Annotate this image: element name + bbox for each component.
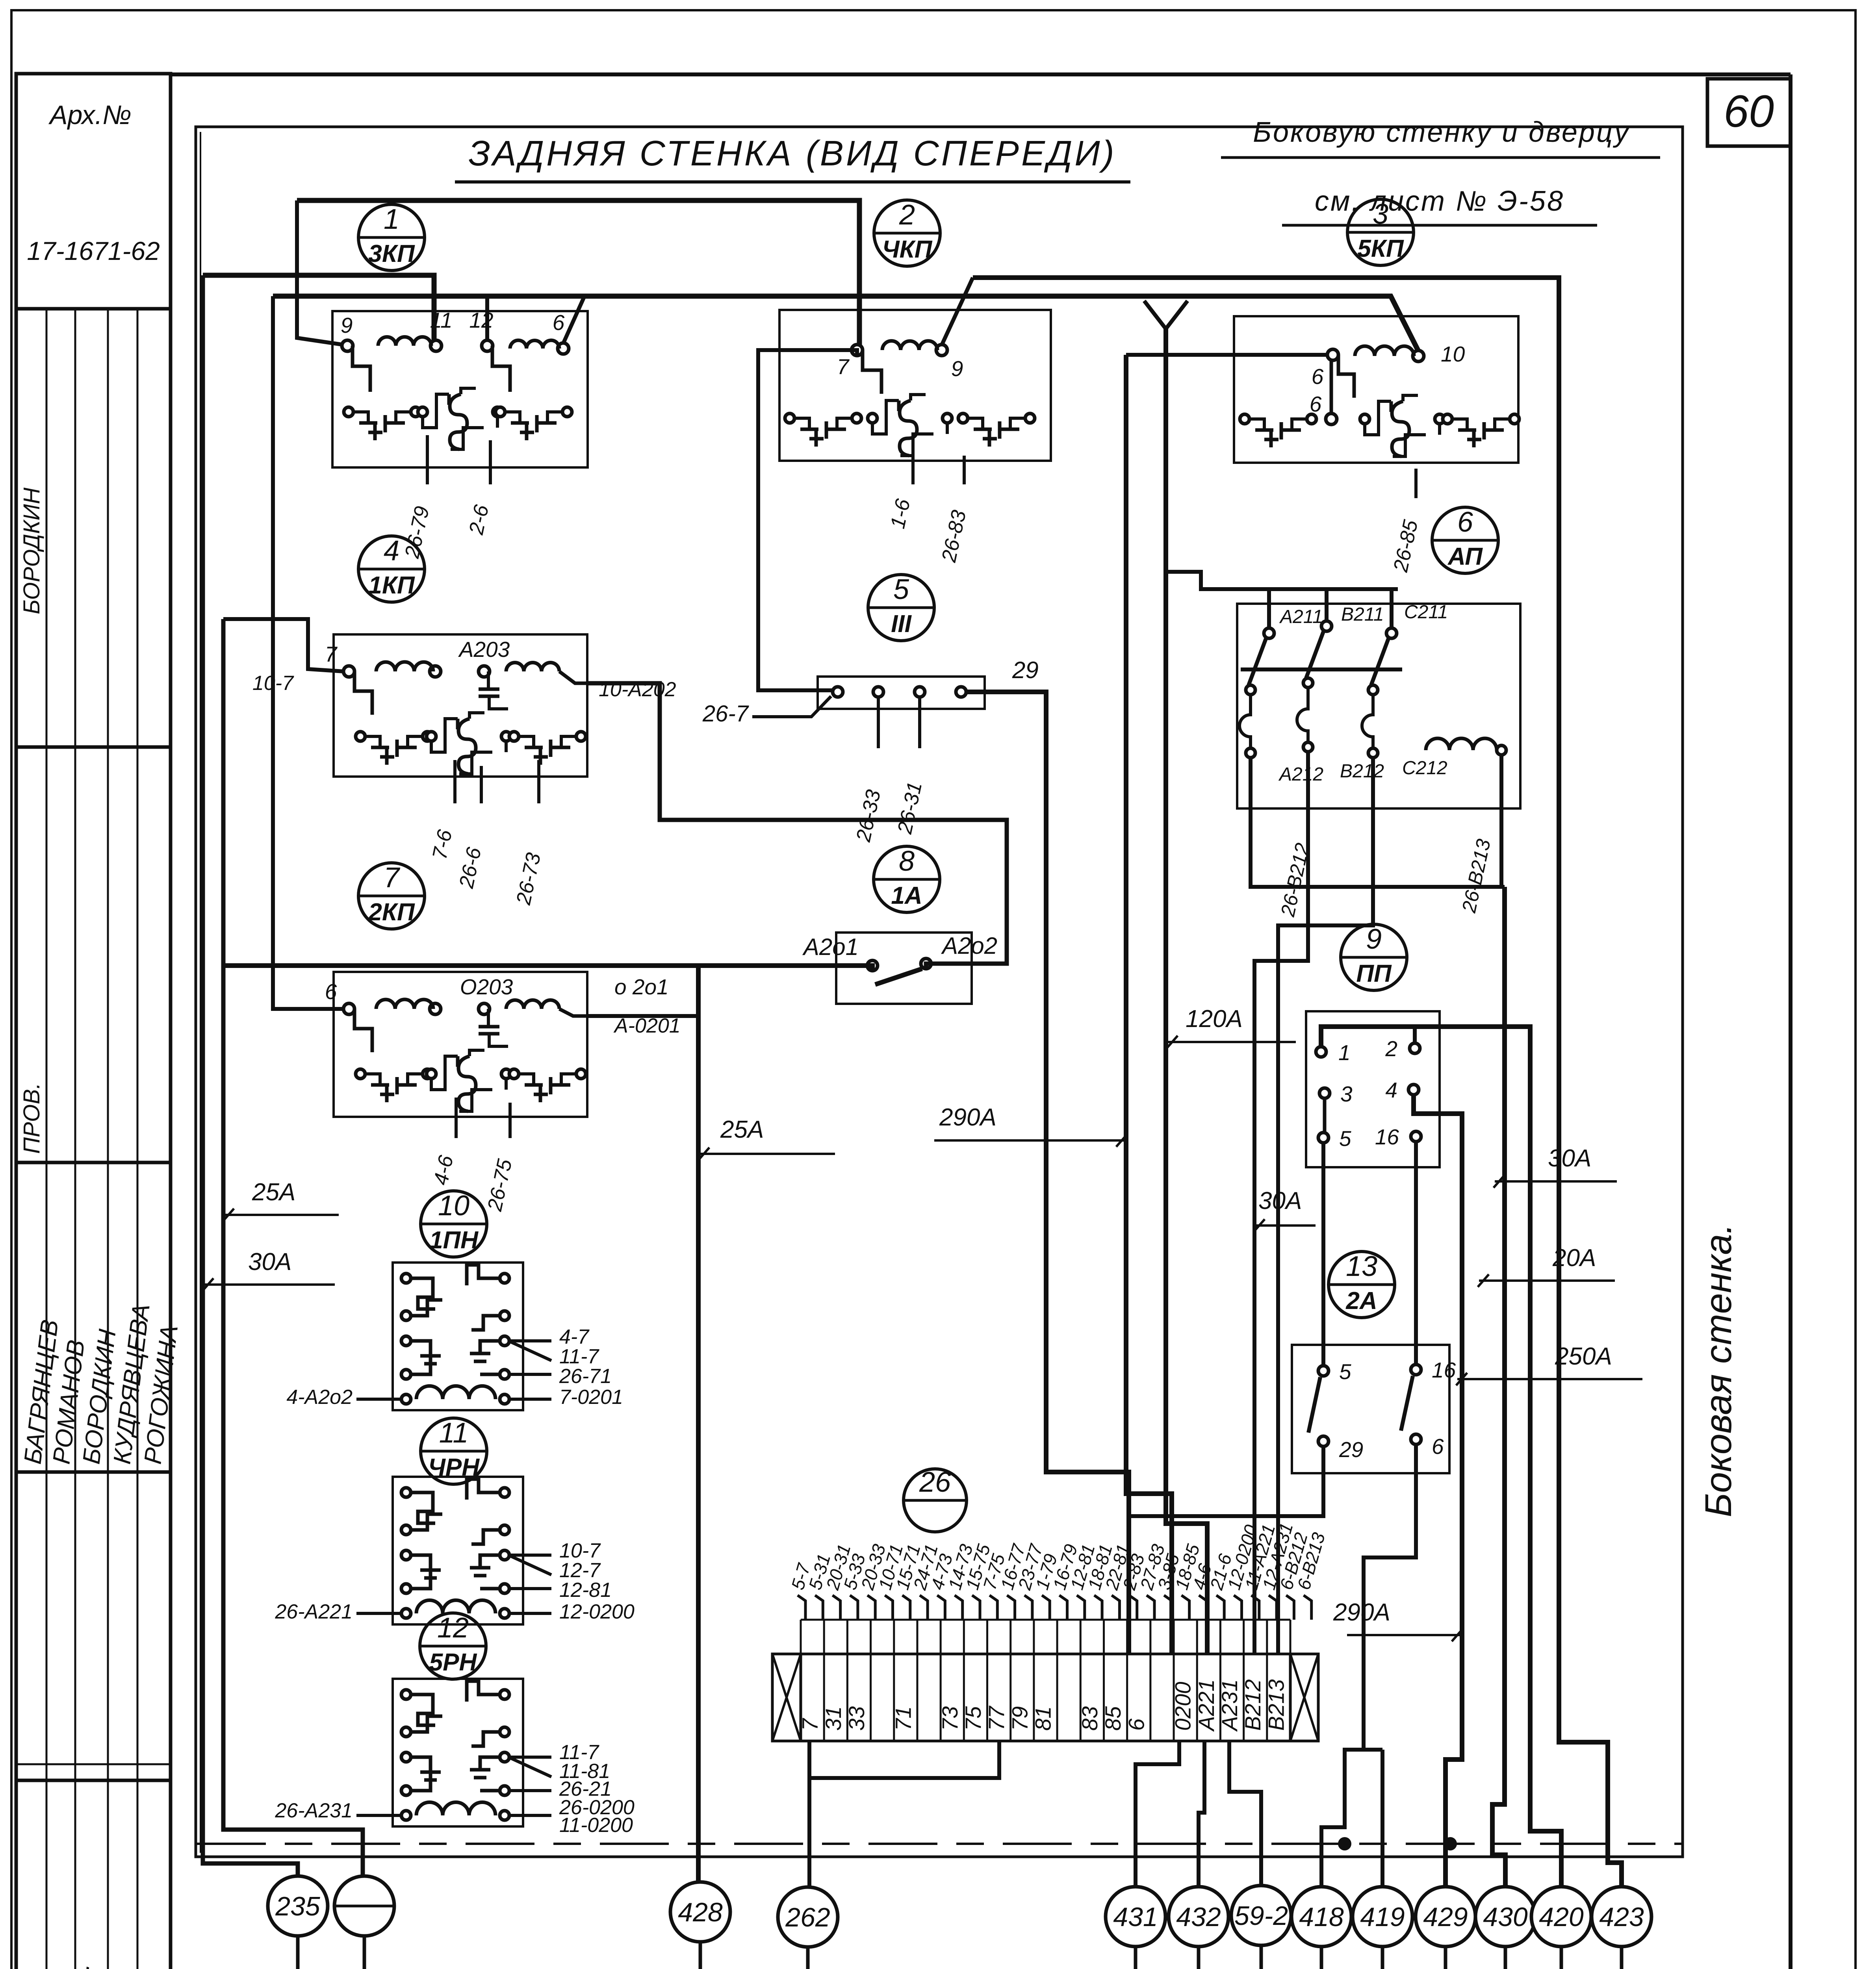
wire block8 A202 loop to relay4 exit <box>587 683 1007 969</box>
relay 4 coil left <box>376 662 433 671</box>
svg-text:1ПН: 1ПН <box>429 1227 479 1254</box>
wire bus 752 drop to relay7 pin6 <box>273 296 344 1009</box>
wire relay1 pin12 up <box>485 296 489 341</box>
svg-text:59-2: 59-2 <box>1234 1901 1288 1931</box>
svg-text:29: 29 <box>1339 1437 1363 1462</box>
circle 262 <box>778 1887 838 1947</box>
svg-text:9: 9 <box>341 313 353 337</box>
relay 3 contact group mid <box>1360 414 1369 424</box>
block 8 blade <box>875 969 922 984</box>
AP wire B212 down <box>1254 752 1308 1654</box>
svg-text:Арх.№: Арх.№ <box>48 100 131 130</box>
svg-text:см. лист № Э-58: см. лист № Э-58 <box>1315 185 1564 217</box>
relay 7 contact group left <box>356 1069 365 1079</box>
relay 7 bottom wire 26-75 <box>508 1103 512 1138</box>
svg-text:26-А231: 26-А231 <box>275 1799 353 1822</box>
svg-text:429: 429 <box>1423 1902 1468 1932</box>
svg-text:7: 7 <box>325 642 338 666</box>
svg-text:2А: 2А <box>1345 1287 1377 1315</box>
designator 10 1PN <box>421 1191 487 1257</box>
relay 1 3KP hooks <box>353 346 370 392</box>
wire bus top 509 <box>297 200 859 345</box>
svg-text:33: 33 <box>844 1706 869 1731</box>
svg-text:11: 11 <box>439 1417 469 1449</box>
AP wire C212 down <box>1278 758 1373 1654</box>
svg-text:75: 75 <box>961 1706 985 1731</box>
relay 2 coil <box>882 341 937 350</box>
AP coil output wire <box>1499 755 1503 887</box>
junction dot 429 dashed <box>1444 1837 1457 1850</box>
designator 7 2KP <box>358 863 425 929</box>
svg-text:85: 85 <box>1100 1706 1125 1731</box>
AP pole A <box>1267 590 1271 627</box>
circle 235 <box>268 1876 328 1936</box>
AP breaker box <box>1237 604 1520 808</box>
svg-text:2: 2 <box>899 199 915 231</box>
relay 1 3KP contact group right <box>495 407 505 417</box>
relay 4 contact group mid <box>427 732 436 741</box>
svg-text:290А: 290А <box>1333 1599 1390 1626</box>
relay 7 coil right <box>506 1000 559 1009</box>
svg-text:420: 420 <box>1539 1902 1584 1932</box>
relay 2 bottom wire 26-83 <box>963 456 966 484</box>
svg-text:АП: АП <box>1447 543 1483 570</box>
designator 2 4KP <box>874 200 940 266</box>
sidebar outer box <box>16 74 171 1969</box>
svg-text:В213: В213 <box>1264 1679 1288 1731</box>
relay 2 contact group mid <box>868 413 877 423</box>
svg-text:10: 10 <box>1441 342 1465 366</box>
relay 4 hook <box>354 671 372 715</box>
block 5 stub 26-33 <box>877 697 880 748</box>
svg-text:1КП: 1КП <box>368 572 415 599</box>
svg-text:3: 3 <box>1340 1082 1353 1106</box>
svg-text:262: 262 <box>785 1902 830 1932</box>
svg-text:25А: 25А <box>720 1116 764 1143</box>
svg-text:12-0200: 12-0200 <box>559 1600 635 1623</box>
svg-text:73: 73 <box>937 1706 962 1731</box>
relay 4 coil right <box>506 663 559 672</box>
svg-text:5РН: 5РН <box>429 1649 477 1676</box>
wire branch to relay7 exit A-0201 <box>587 1014 698 1018</box>
svg-text:В212: В212 <box>1340 761 1384 782</box>
junction dot 418 dashed <box>1338 1837 1351 1850</box>
block 8 terminal A201 <box>867 960 878 971</box>
svg-text:6: 6 <box>325 979 337 1004</box>
svg-text:235: 235 <box>275 1891 320 1921</box>
relay 7 contact group right <box>509 1069 519 1079</box>
wire feeder 567 to lamp circle <box>223 619 363 1875</box>
svg-text:С212: С212 <box>1402 758 1447 779</box>
drawing area right frame line <box>1789 74 1792 1969</box>
terminal strip 26 top stubs and wire labels <box>798 1595 805 1620</box>
svg-text:418: 418 <box>1299 1902 1344 1932</box>
wire bus 752 long <box>273 296 1418 351</box>
feeder drop wires <box>296 1936 300 1969</box>
relay 12 5RN box <box>393 1679 523 1826</box>
svg-text:30А: 30А <box>1548 1145 1591 1172</box>
svg-text:419: 419 <box>1360 1902 1405 1932</box>
svg-text:120А: 120А <box>1186 1005 1243 1033</box>
relay 3 contact group right <box>1443 414 1452 424</box>
svg-text:6: 6 <box>1124 1718 1149 1731</box>
circle 430 <box>1475 1887 1535 1947</box>
svg-text:11-0200: 11-0200 <box>559 1814 633 1837</box>
sheet number box 60 <box>1707 79 1791 146</box>
svg-text:ЧКП: ЧКП <box>882 236 933 263</box>
drawing area top frame line <box>171 72 1791 76</box>
svg-text:Боковая стенка.: Боковая стенка. <box>1698 1224 1739 1517</box>
svg-text:30А: 30А <box>1258 1187 1302 1214</box>
relay 1 bottom wire 26-79 <box>426 435 429 484</box>
wire block9 pin16 to block13 pin16 <box>1414 1142 1418 1365</box>
block 9 PP box <box>1306 1011 1440 1167</box>
svg-text:В212: В212 <box>1240 1679 1265 1731</box>
relay 3 vertical 6-6 link <box>1330 360 1333 413</box>
relay 2 contact group left <box>785 413 794 423</box>
relay 4 right exit <box>559 671 587 683</box>
relay 4 contact group left <box>356 732 365 741</box>
relay 1 bottom wire 2-6 <box>489 440 492 484</box>
svg-text:ЗАДНЯЯ СТЕНКА (ВИД СПЕРЕ: ЗАДНЯЯ СТЕНКА (ВИД СПЕРЕДИ) <box>468 134 1116 173</box>
relay 1 3KP contact group mid <box>418 407 427 417</box>
svg-text:290А: 290А <box>939 1104 996 1131</box>
svg-text:А212: А212 <box>1278 764 1323 785</box>
relay 4 contact group right <box>509 732 519 741</box>
terminal strip 26 end cross left <box>772 1654 801 1741</box>
svg-text:6: 6 <box>1310 392 1322 416</box>
block 5 III box <box>818 677 985 709</box>
terminal strip 26 upper row <box>800 1620 802 1654</box>
wire block9 pin4 to circle 429 <box>1414 1095 1462 1887</box>
wire bus 699 <box>203 275 434 341</box>
svg-text:432: 432 <box>1176 1902 1221 1932</box>
designator 12 5RN <box>420 1613 486 1679</box>
wire block9 pin2 stub <box>1413 1027 1417 1043</box>
relay 7 bottom wire 4-6 <box>455 1098 458 1138</box>
circle 420 <box>1531 1887 1591 1947</box>
designator 13 2A <box>1329 1251 1395 1318</box>
designator 5 III <box>868 575 934 641</box>
svg-text:2: 2 <box>1385 1036 1397 1061</box>
svg-text:9: 9 <box>1366 923 1382 955</box>
relay 1 3KP box <box>332 311 588 467</box>
wire strip cell A231 to circle 59-2 <box>1229 1741 1261 1886</box>
relay 11 4RN box <box>393 1477 523 1624</box>
wire strip cell 0200 to circle 431 <box>1136 1741 1179 1887</box>
svg-text:423: 423 <box>1599 1902 1644 1932</box>
svg-text:О203: О203 <box>460 975 513 999</box>
relay 10 coil exits <box>508 1398 551 1401</box>
wire block13 pin29 left link <box>1129 1447 1323 1516</box>
svg-text:0200: 0200 <box>1171 1682 1195 1731</box>
block 13 terminals <box>1318 1366 1329 1376</box>
AP pole B <box>1325 590 1329 620</box>
wire block9 bus 2607 <box>1321 1027 1561 1887</box>
svg-text:7: 7 <box>384 862 401 894</box>
svg-text:1А: 1А <box>891 882 922 909</box>
svg-text:3КП: 3КП <box>368 240 415 267</box>
relay 3 bottom wire 26-85 <box>1414 469 1418 498</box>
wire AP bottom bus to circle 430 <box>1492 887 1505 1887</box>
svg-text:4: 4 <box>384 535 399 567</box>
svg-text:4-А2о2: 4-А2о2 <box>286 1386 353 1409</box>
svg-text:81: 81 <box>1031 1706 1056 1731</box>
svg-text:6: 6 <box>1432 1434 1444 1459</box>
circle 432 <box>1169 1887 1228 1947</box>
designator 26 <box>904 1469 967 1532</box>
block 8 terminal A202 <box>921 959 931 969</box>
block 9 terminals <box>1316 1047 1326 1057</box>
svg-text:10: 10 <box>438 1190 469 1222</box>
circle 418 <box>1291 1887 1351 1947</box>
wire bus 705 upper right <box>973 278 1622 1887</box>
svg-text:5: 5 <box>893 574 909 605</box>
designator 4 1KP <box>358 536 425 602</box>
svg-text:А211: А211 <box>1279 606 1323 627</box>
relay 1 3KP contact group left <box>344 407 353 417</box>
wire relay2 pin9 diagonal up <box>942 278 973 345</box>
wire Y riser from bus to 120A feeder <box>1144 301 1188 329</box>
relay 11 switch exit <box>508 1554 551 1557</box>
svg-text:III: III <box>891 610 912 638</box>
wire relay1 pin6 diagonal up <box>563 296 585 343</box>
svg-text:4: 4 <box>1385 1078 1397 1102</box>
circle 419 <box>1353 1887 1412 1947</box>
svg-text:8: 8 <box>899 845 915 877</box>
svg-text:26-7: 26-7 <box>702 701 750 727</box>
schematic frame inner left line <box>200 132 201 1853</box>
block 8 1A box <box>836 933 972 1004</box>
wire relay2 pin7 to block5 <box>758 350 857 690</box>
svg-text:7: 7 <box>837 354 850 379</box>
wire bus 509 left drop to relay1 pin9 <box>297 200 342 345</box>
svg-text:6: 6 <box>1457 506 1473 538</box>
svg-text:431: 431 <box>1113 1902 1158 1932</box>
svg-text:30А: 30А <box>248 1248 291 1276</box>
relay 7 hook <box>354 1009 372 1052</box>
svg-text:20А: 20А <box>1552 1244 1596 1272</box>
wire block5 pin4 to 29 riser <box>966 692 1129 1654</box>
wire left feeder to lamp circle 235 <box>203 275 298 1875</box>
AP pole C <box>1390 590 1394 627</box>
svg-text:1: 1 <box>384 204 399 235</box>
designator 9 PP <box>1341 924 1407 990</box>
relay 7 contact group mid <box>427 1069 436 1079</box>
svg-text:ПРОВ.: ПРОВ. <box>19 1083 45 1154</box>
relay 3 coil top <box>1355 346 1414 356</box>
svg-text:12: 12 <box>469 308 493 332</box>
svg-text:Боковую стенку и дверцу: Боковую стенку и дверцу <box>1253 117 1630 148</box>
block 13 2A box <box>1292 1345 1449 1473</box>
relay 2 hook <box>863 350 881 394</box>
svg-text:17-1671-62: 17-1671-62 <box>27 236 160 265</box>
AP cross links <box>1241 667 1402 671</box>
svg-text:79: 79 <box>1007 1706 1032 1731</box>
terminal strip 26 cells <box>800 1654 802 1741</box>
relay 3 5KP box <box>1234 316 1518 463</box>
wire strip cell 7 down to circle 262 <box>807 1741 811 1887</box>
relay 2 bottom wire 1-6 <box>911 456 915 484</box>
svg-text:А231: А231 <box>1217 1679 1242 1732</box>
relay 10 switch exit <box>508 1339 551 1342</box>
svg-text:7-0201: 7-0201 <box>559 1386 623 1409</box>
designator 8 1A <box>874 846 940 912</box>
terminal strip 26 end cross right <box>1290 1654 1318 1741</box>
sidebar divider lines <box>16 745 171 749</box>
svg-text:428: 428 <box>678 1897 723 1927</box>
AP coil <box>1426 738 1497 750</box>
relay 7 cap symbol <box>487 1009 490 1027</box>
relay 7 right exit <box>559 1009 587 1016</box>
svg-text:3: 3 <box>1373 198 1388 230</box>
terminal strip 26 body <box>772 1654 1318 1741</box>
relay 10 1PN box <box>393 1263 523 1410</box>
block 9 wire 3-5 link <box>1323 1098 1327 1133</box>
svg-text:В211: В211 <box>1341 604 1384 625</box>
svg-text:1: 1 <box>1338 1040 1351 1065</box>
circle 423 <box>1592 1887 1651 1947</box>
relay 4 bottom wire 26-6 <box>480 766 483 803</box>
wire block13 pin6 to circle 418 <box>1321 1445 1416 1887</box>
svg-text:16: 16 <box>1375 1125 1399 1149</box>
circle lamp symbol <box>334 1876 394 1936</box>
svg-text:9: 9 <box>951 356 963 381</box>
svg-text:А2о2: А2о2 <box>941 933 997 959</box>
designator 1 3KP <box>358 204 425 271</box>
AP feed bus <box>1166 572 1398 589</box>
svg-text:2КП: 2КП <box>368 899 415 926</box>
circle 59-2 <box>1231 1886 1291 1945</box>
relay 3 hook <box>1338 355 1354 398</box>
svg-text:13: 13 <box>1346 1251 1377 1282</box>
AP bottom bus <box>1251 758 1505 887</box>
svg-text:16: 16 <box>1432 1358 1456 1382</box>
svg-text:60: 60 <box>1724 86 1774 137</box>
relay 12 switch exit <box>508 1756 551 1759</box>
svg-text:77: 77 <box>984 1706 1009 1731</box>
svg-text:430: 430 <box>1483 1902 1528 1932</box>
sidebar internal column lines <box>46 309 48 1969</box>
svg-text:С211: С211 <box>1404 602 1448 623</box>
svg-text:5: 5 <box>1339 1359 1351 1384</box>
svg-text:29: 29 <box>1012 657 1039 683</box>
schematic frame <box>196 127 1683 1857</box>
svg-text:А221: А221 <box>1194 1679 1219 1732</box>
relay 2 4KP box <box>779 310 1051 461</box>
circle 429 <box>1416 1887 1475 1947</box>
designator 6 AP <box>1432 507 1498 573</box>
svg-text:26-А221: 26-А221 <box>275 1600 353 1623</box>
svg-text:А203: А203 <box>458 637 510 662</box>
block 13 blades <box>1308 1377 1320 1433</box>
designator 11 4RN <box>421 1418 487 1484</box>
svg-text:12: 12 <box>437 1612 469 1644</box>
relay 4 1KP box <box>334 634 587 777</box>
relay 4 bottom wire 7-6 <box>453 760 456 803</box>
svg-text:25А: 25А <box>252 1179 295 1206</box>
sidebar Arch No box <box>16 74 171 309</box>
svg-text:ПП: ПП <box>1356 960 1392 987</box>
wire block9 pin5 to block13 pin5 <box>1321 1143 1325 1366</box>
relay 12 coil exits <box>508 1814 551 1817</box>
dashed chassis line <box>197 1843 1683 1845</box>
svg-text:71: 71 <box>891 1706 915 1731</box>
svg-text:6: 6 <box>1312 364 1324 389</box>
wire relay3 pin6 left to 290A riser <box>1126 353 1328 357</box>
svg-text:83: 83 <box>1077 1706 1102 1731</box>
relay 11 coil exits <box>508 1612 551 1615</box>
svg-text:7: 7 <box>798 1718 822 1731</box>
svg-text:26: 26 <box>919 1467 951 1498</box>
relay 4 cap symbol <box>487 671 490 689</box>
relay 4 bottom wire 26-73 <box>537 760 540 803</box>
circle 431 <box>1106 1887 1165 1947</box>
wire strip bridge 7 to 77 <box>809 1741 999 1778</box>
wire strip cell A221 to circle 432 <box>1199 1741 1204 1887</box>
wire block8 A201 left feeder down to circle 428 <box>223 966 872 971</box>
svg-text:5КП: 5КП <box>1357 235 1404 262</box>
block 5 terminals <box>833 687 843 697</box>
wire 567 to relay4 pin7 <box>223 619 344 671</box>
svg-text:26-71: 26-71 <box>559 1365 612 1388</box>
relay 1 3KP coils <box>378 337 431 346</box>
circle 428 <box>670 1882 730 1942</box>
relay 2 contact group right <box>958 413 968 423</box>
wire 290A riser <box>1126 355 1172 1654</box>
designator 3 5KP <box>1347 199 1414 265</box>
svg-text:250А: 250А <box>1555 1343 1612 1370</box>
relay 7 coil left <box>376 999 433 1009</box>
svg-text:БОРОДКИН: БОРОДКИН <box>19 488 45 614</box>
svg-text:6: 6 <box>553 310 565 335</box>
wire circle 419 feeder <box>1381 1750 1384 1887</box>
block 5 stub 26-31 <box>918 697 921 748</box>
relay 3 contact group left <box>1240 414 1249 424</box>
relay 7 2KP box <box>334 972 587 1117</box>
svg-text:о 2о1: о 2о1 <box>614 975 669 999</box>
svg-text:31: 31 <box>821 1706 846 1731</box>
svg-text:А2о1: А2о1 <box>802 934 859 960</box>
svg-text:5: 5 <box>1339 1126 1351 1151</box>
svg-text:12-81: 12-81 <box>559 1579 612 1602</box>
